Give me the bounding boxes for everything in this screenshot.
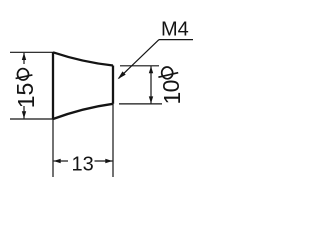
knob part outline: left face (15φ diameter): [52, 52, 54, 119]
15φ dimension line upper segment: [23, 53, 25, 64]
10φ dimension lower arrowhead: [149, 96, 153, 103]
15φ dimension lower arrowhead: [22, 111, 26, 118]
15φ dimension line lower segment: [23, 106, 25, 118]
knob part outline: top flank curve: [53, 52, 113, 65]
13 dimension line left segment: [54, 160, 68, 162]
10φ dimension upper arrowhead: [149, 66, 153, 73]
10φ dimension phi symbol ring: [161, 66, 174, 80]
M4 leader arrowhead: [118, 71, 126, 79]
10φ bottom extension line: [119, 103, 162, 105]
10φ dimension phi symbol stem: [158, 73, 178, 78]
svg-text:13: 13: [71, 154, 93, 176]
M4 leader diagonal line: [119, 40, 159, 79]
15φ dimension phi symbol stem: [16, 75, 33, 79]
13 left extension line (below part): [52, 119, 54, 177]
svg-text:5: 5: [12, 83, 38, 96]
svg-text:1: 1: [13, 96, 39, 109]
15φ dimension phi symbol ring: [16, 68, 29, 81]
10φ dimension line: [150, 66, 152, 103]
svg-text:1: 1: [159, 92, 185, 105]
knob part outline: right face (10φ diameter): [112, 66, 114, 104]
15φ dimension upper arrowhead: [22, 53, 26, 60]
13 dimension line right segment: [95, 160, 113, 162]
M4 leader underline: [159, 39, 193, 41]
knob part outline: bottom flank curve: [53, 104, 113, 119]
13 dimension right arrowhead: [105, 159, 112, 163]
13 right extension line (below part): [112, 104, 114, 177]
15φ bottom extension line: [10, 118, 53, 120]
svg-text:M4: M4: [161, 18, 189, 40]
13 dimension left arrowhead: [54, 159, 61, 163]
10φ top extension line: [120, 65, 159, 67]
15φ top extension line: [10, 51, 53, 53]
svg-text:0: 0: [158, 80, 184, 93]
